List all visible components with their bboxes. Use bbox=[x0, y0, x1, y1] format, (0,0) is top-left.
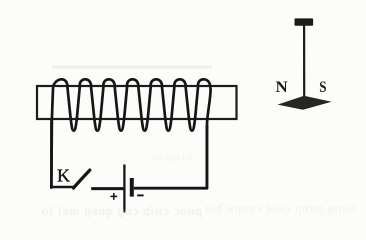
svg-text:ʜɔ ηἰπ ʟǝ: ʜɔ ηἰπ ʟǝ bbox=[152, 151, 192, 163]
svg-text:K: K bbox=[57, 166, 70, 186]
svg-text:N: N bbox=[276, 79, 289, 96]
svg-text:ɒἰɗ ʜηɒʜɔ ἰὸʜɔ ηᾱʜη ϱηὐɗ: ɒἰɗ ʜηɒʜɔ ἰὸʜɔ ηᾱʜη ϱηὐɗ bbox=[205, 201, 356, 215]
svg-text:S: S bbox=[319, 79, 326, 96]
svg-text:òl ìàm ηāup ϱἀɔ ɗἱʜɔ ɔύʜq: òl ìàm ηāup ϱἀɔ ɗἱʜɔ ɔύʜq bbox=[42, 203, 203, 218]
